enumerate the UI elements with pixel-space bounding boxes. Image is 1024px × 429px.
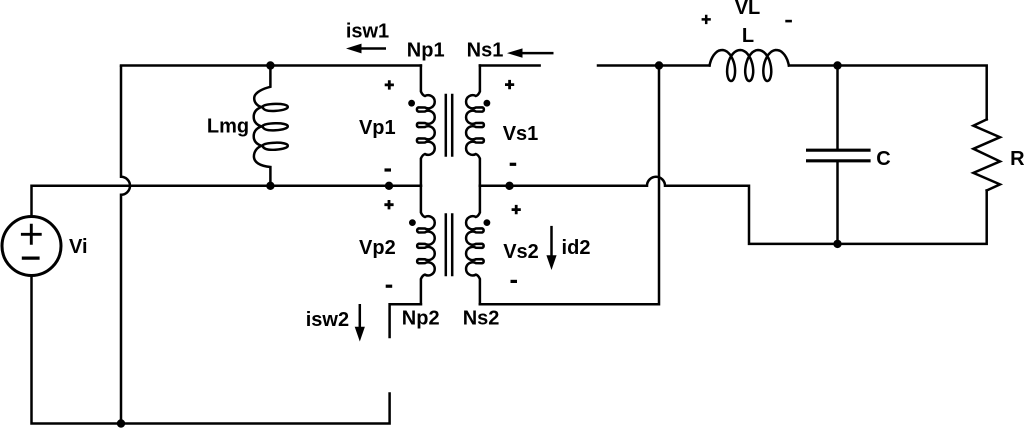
phase dot Np2 bbox=[409, 219, 416, 226]
svg-text:Np2: Np2 bbox=[402, 308, 440, 330]
minus Vs1 bbox=[510, 163, 517, 166]
minus Vp2 bbox=[386, 285, 393, 288]
resistor R zigzag bbox=[973, 119, 1000, 190]
wire bottom rail bbox=[32, 276, 390, 424]
wire secondary top lead to switch gap bbox=[480, 64, 540, 67]
svg-text:VL: VL bbox=[735, 0, 761, 19]
minus VL bbox=[785, 20, 792, 23]
svg-text:Ns2: Ns2 bbox=[463, 308, 500, 330]
capacitor C leads bbox=[836, 66, 839, 244]
svg-text:Np1: Np1 bbox=[407, 39, 445, 61]
transformer primary winding Np1 bbox=[417, 66, 435, 186]
wire top-left rail bbox=[121, 64, 421, 67]
phase dot Np1 bbox=[408, 100, 415, 107]
svg-text:Vs1: Vs1 bbox=[503, 123, 539, 145]
svg-text:Vs2: Vs2 bbox=[503, 241, 539, 263]
wire mid-right rail with hop, down to output bottom rail bbox=[480, 177, 987, 244]
svg-text:Lmg: Lmg bbox=[207, 116, 249, 138]
junction dot secondary center tap bbox=[505, 182, 513, 190]
inductor Lmg coil bbox=[254, 66, 288, 186]
Vi plus sign bbox=[21, 224, 42, 245]
transformer core lower bbox=[446, 215, 452, 276]
capacitor C plates bbox=[808, 150, 869, 161]
svg-text:C: C bbox=[876, 148, 890, 170]
wire mid-left rail from Vi to primary center tap bbox=[32, 186, 421, 217]
plus Vp2 bbox=[384, 200, 393, 209]
plus VL bbox=[702, 15, 711, 24]
svg-text:isw2: isw2 bbox=[306, 309, 349, 331]
transformer primary winding Np2 bbox=[417, 186, 435, 304]
arrow isw1 bbox=[359, 47, 386, 50]
transformer core upper bbox=[446, 95, 452, 156]
svg-text:id2: id2 bbox=[562, 237, 591, 259]
svg-text:isw1: isw1 bbox=[346, 21, 389, 43]
svg-text:R: R bbox=[1010, 148, 1024, 170]
source Vi circle bbox=[2, 217, 61, 276]
arrow isw2 bbox=[359, 304, 362, 329]
transformer secondary winding Ns1 bbox=[466, 66, 484, 186]
plus Vs1 bbox=[505, 80, 514, 89]
arrow Ns1 bbox=[519, 52, 554, 55]
phase dot Ns1 bbox=[484, 100, 491, 107]
junction dot capacitor bottom bbox=[833, 240, 841, 248]
minus Vp1 bbox=[385, 168, 392, 171]
svg-text:L: L bbox=[742, 25, 754, 47]
inductor L coil bbox=[710, 50, 789, 81]
transformer secondary winding Ns2 bbox=[466, 186, 484, 304]
wire left vertical with hop over mid rail bbox=[121, 66, 130, 424]
plus Vs2 bbox=[512, 205, 521, 214]
minus Vs2 bbox=[511, 280, 518, 283]
Vi minus sign bbox=[22, 257, 40, 260]
wire top-right rail bbox=[598, 66, 987, 120]
junction dot primary center tap bbox=[385, 182, 393, 190]
phase dot Ns2 bbox=[484, 219, 491, 226]
arrow id2 bbox=[550, 226, 553, 256]
svg-text:Vp1: Vp1 bbox=[359, 117, 396, 139]
svg-text:Ns1: Ns1 bbox=[467, 39, 504, 61]
svg-text:Vp2: Vp2 bbox=[359, 237, 396, 259]
junction dot Lmg top bbox=[266, 61, 274, 69]
wire Np2 bottom lead to switch gap bbox=[390, 304, 421, 337]
junction dot top-right node bbox=[655, 61, 663, 69]
junction dot capacitor top bbox=[833, 61, 841, 69]
junction dot Lmg bottom bbox=[266, 182, 274, 190]
svg-text:Vi: Vi bbox=[69, 236, 88, 258]
junction dot bottom-left bbox=[117, 419, 125, 427]
wire Ns2 bottom lead and right riser bbox=[480, 66, 659, 305]
plus Vp1 bbox=[385, 80, 394, 89]
